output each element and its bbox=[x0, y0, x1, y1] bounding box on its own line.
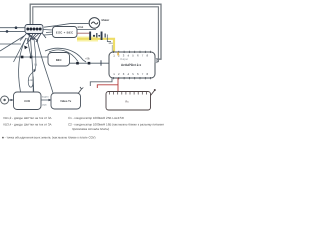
svg-text:12В: 12В bbox=[28, 79, 33, 82]
board right connector nub bbox=[155, 58, 157, 63]
ESC + BEC box bbox=[53, 27, 78, 38]
signal branch wire bbox=[107, 35, 111, 42]
camera lens circle bbox=[1, 96, 9, 104]
svg-text:ArduPilot 2.x: ArduPilot 2.x bbox=[121, 63, 141, 67]
svg-text:12345678: 12345678 bbox=[113, 54, 151, 58]
receiver power wire red vertical bbox=[117, 78, 119, 92]
yellow signal wire core bbox=[77, 39, 114, 52]
battery feed wire bottom bbox=[0, 30, 26, 32]
bullet dot 1 bbox=[93, 35, 95, 37]
Video Tx antenna bbox=[79, 87, 84, 93]
lens wire bbox=[9, 99, 14, 101]
lens center mark bbox=[3, 99, 5, 101]
flyover arc 2 bbox=[49, 50, 78, 62]
phase wire 2 (red) bbox=[77, 32, 91, 34]
svg-text:+5В: +5В bbox=[85, 57, 90, 60]
phase wire 1 bbox=[77, 29, 96, 31]
input wire gray L bbox=[90, 78, 112, 86]
Video Tx box bbox=[51, 93, 81, 109]
junction square D bbox=[30, 56, 33, 59]
svg-text:CCD: CCD bbox=[24, 100, 30, 103]
motor M1 circle bbox=[89, 18, 100, 29]
connector pins bbox=[26, 28, 41, 31]
wire fan diagonal 3 bbox=[0, 36, 24, 51]
svg-text:Output: Output bbox=[120, 58, 128, 61]
diagonal wire to video tx bbox=[37, 40, 53, 93]
svg-text:30A: 30A bbox=[109, 42, 114, 45]
junction dot B bbox=[6, 30, 9, 33]
motor tilde bbox=[91, 22, 98, 24]
gray signal line by yellow bbox=[111, 45, 113, 52]
arrow head on fan bbox=[24, 46, 28, 50]
bullet connector bar 2 bbox=[101, 32, 103, 41]
wire ribbon loop (inner) bbox=[33, 7, 159, 62]
Rx pin ticks bbox=[110, 92, 147, 95]
svg-text:Motor: Motor bbox=[102, 18, 111, 22]
svg-text:5В: 5В bbox=[34, 64, 37, 67]
connector X1 block bbox=[25, 25, 43, 34]
svg-text:С1 - конденсатор 1000мкФ 25В L: С1 - конденсатор 1000мкФ 25В LowESR bbox=[68, 116, 125, 120]
capacitor C3 tick bbox=[100, 60, 102, 66]
svg-text:VD1,2 - диоды Шоттки на ток от: VD1,2 - диоды Шоттки на ток от 3А bbox=[3, 116, 52, 120]
svg-text:Video Tx: Video Tx bbox=[60, 100, 72, 103]
svg-text:ESC + BEC: ESC + BEC bbox=[56, 30, 74, 34]
svg-text:С2 - конденсатор 1000мкФ 16В (: С2 - конденсатор 1000мкФ 16В (как можно … bbox=[68, 122, 164, 126]
connector braid wires bbox=[20, 33, 46, 44]
svg-text:12345678: 12345678 bbox=[113, 72, 151, 76]
yellow signal band pale bbox=[77, 37, 98, 42]
svg-text:BEC: BEC bbox=[56, 59, 62, 62]
rail square dot 2 bbox=[88, 62, 91, 65]
lens wire arrow bbox=[11, 99, 14, 101]
junction dot A bbox=[15, 26, 18, 29]
ESC to connector wires bbox=[43, 30, 53, 36]
svg-text:■ - точка объединения всех зем: ■ - точка объединения всех земель (как м… bbox=[2, 136, 96, 140]
battery feed wire top bbox=[0, 27, 26, 29]
wire ribbon loop (outer) bbox=[30, 4, 161, 59]
svg-text:видео: видео bbox=[42, 96, 49, 99]
board yellow pin mark bbox=[117, 52, 119, 55]
Rx antenna tip bbox=[154, 89, 156, 91]
second vertical wire with service loop bbox=[28, 38, 36, 87]
junction square C bbox=[21, 56, 24, 59]
small down arrow bbox=[33, 70, 36, 73]
long left arc down to camera bbox=[19, 38, 26, 92]
bullet bar small 3 bbox=[105, 34, 106, 38]
camera CCD box bbox=[14, 92, 42, 110]
receiver power wire red horizontal bbox=[97, 85, 118, 88]
bullet connector bar 1 bbox=[89, 32, 91, 41]
ArduPilot board U1 bbox=[109, 52, 155, 78]
video wire arrow bbox=[49, 99, 52, 101]
board bottom pin ticks bbox=[114, 77, 151, 79]
loop exit wire bbox=[32, 77, 35, 93]
Rx antenna bbox=[151, 91, 155, 96]
vertical wire pair to camera bbox=[31, 38, 34, 92]
left rail wire y57 bbox=[0, 56, 49, 58]
wire fan diagonal 1 bbox=[14, 38, 27, 62]
left rail wire y44 bbox=[0, 43, 21, 45]
video wire to tx bbox=[41, 99, 51, 101]
svg-text:VD3,4 - диоды Шоттки на ток от: VD3,4 - диоды Шоттки на ток от 3А bbox=[3, 122, 52, 126]
bullet bar small pair bbox=[96, 33, 97, 38]
motor top wire bbox=[44, 24, 89, 28]
svg-text:приемника сигнала платы): приемника сигнала платы) bbox=[72, 127, 109, 131]
receiver Rx box bbox=[106, 92, 151, 111]
board top pin ticks bbox=[114, 51, 151, 53]
svg-text:XT60: XT60 bbox=[78, 26, 84, 29]
flyover arc 1 bbox=[45, 48, 86, 62]
BEC box bbox=[48, 53, 70, 67]
wire fan diagonal 2 bbox=[27, 38, 31, 57]
5V rail to board bbox=[70, 62, 110, 64]
bullet dot 2 bbox=[98, 35, 100, 37]
rail square dot 1 bbox=[76, 62, 79, 65]
